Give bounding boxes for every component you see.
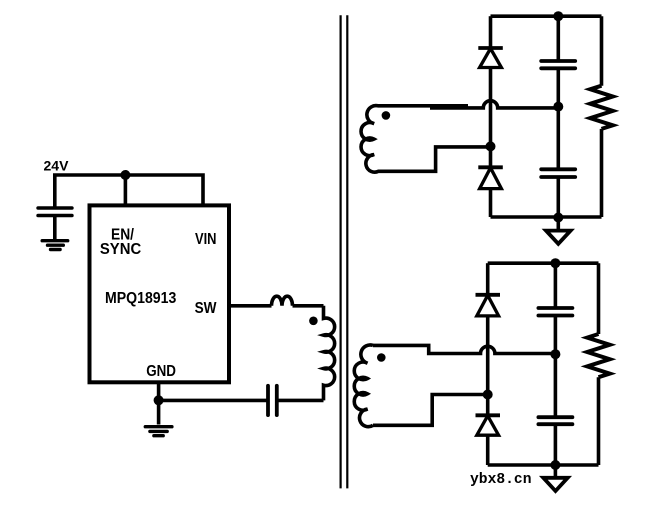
junction dot supply node bbox=[120, 170, 130, 180]
wire bottom rail lower bbox=[488, 463, 599, 467]
transformer T1 primary winding bbox=[324, 306, 335, 401]
capacitor C5 bbox=[538, 308, 572, 316]
wire node to D2 cathode bbox=[489, 146, 493, 167]
wire output cap column lower bbox=[554, 263, 558, 308]
diode D4 bbox=[476, 415, 501, 435]
wire C3 to mid node bbox=[556, 68, 560, 169]
junction dot output mid lower bbox=[550, 349, 560, 359]
junction dot bottom rail upper bbox=[553, 213, 563, 223]
wire D1 anode to node bbox=[489, 68, 493, 147]
transformer T1 secondary winding lower bbox=[354, 345, 373, 427]
diode D3 bbox=[476, 295, 501, 316]
capacitor C6 bbox=[538, 417, 572, 424]
diode D1 bbox=[478, 48, 503, 68]
capacitor C3 bbox=[541, 61, 575, 68]
junction dot GND node bbox=[154, 395, 164, 405]
polarity dot secondary lower bbox=[377, 353, 386, 362]
svg-text:MPQ18913: MPQ18913 bbox=[105, 290, 177, 307]
wire output cap column upper bbox=[556, 16, 560, 61]
polarity dot primary bbox=[309, 317, 318, 326]
wire C6 to bottom rail bbox=[554, 424, 558, 465]
wire node to D4 cathode bbox=[486, 395, 490, 416]
svg-text:24V: 24V bbox=[44, 157, 70, 173]
svg-text:VIN: VIN bbox=[195, 231, 217, 248]
svg-text:SW: SW bbox=[195, 300, 217, 317]
svg-text:ybx8.cn: ybx8.cn bbox=[470, 471, 532, 488]
wire D3 cathode to top rail bbox=[486, 263, 490, 295]
capacitor C1 input bbox=[38, 208, 72, 239]
svg-text:SYNC: SYNC bbox=[100, 241, 141, 258]
junction dot anode node upper bbox=[486, 141, 496, 151]
resistor R1 bbox=[590, 16, 613, 217]
op-amp U1 MPQ18913 box bbox=[90, 205, 230, 382]
wire secondary upper bottom to anode node bbox=[383, 147, 491, 171]
capacitor C4 bbox=[541, 169, 575, 177]
capacitor C2 series bbox=[268, 386, 277, 415]
wire D4 anode to bottom rail bbox=[486, 435, 490, 465]
resistor R2 bbox=[587, 263, 610, 465]
wire secondary lower top to output node (crossover hop) bbox=[373, 345, 555, 353]
wire 24V supply rail to VIN bbox=[55, 175, 203, 209]
wire C4 to bottom rail bbox=[556, 177, 560, 217]
wire EN/SYNC stub bbox=[124, 175, 128, 205]
junction dot top rail upper bbox=[553, 11, 563, 21]
ground output upper bbox=[546, 218, 571, 244]
wire C5 to mid node bbox=[554, 316, 558, 418]
wire D1 cathode to top rail bbox=[489, 16, 493, 48]
svg-text:GND: GND bbox=[146, 363, 176, 380]
junction dot bottom rail lower bbox=[550, 460, 560, 470]
junction dot output mid upper bbox=[553, 102, 563, 112]
transformer core bbox=[341, 15, 348, 488]
wire secondary upper top to output node (crossover hop) bbox=[382, 101, 558, 108]
ground GND bbox=[145, 427, 172, 436]
ground input bbox=[42, 241, 67, 250]
wire primary bottom to capacitor C2 bbox=[277, 399, 324, 403]
wire top rail lower bbox=[488, 261, 599, 265]
wire D3 anode to node bbox=[486, 316, 490, 395]
wire capacitor C2 to GND node bbox=[159, 399, 268, 403]
junction dot top rail lower bbox=[550, 258, 560, 268]
ground output lower bbox=[543, 465, 567, 491]
inductor L1 bbox=[272, 296, 293, 306]
wire GND pin to ground bbox=[157, 384, 161, 425]
transformer T1 secondary winding upper bbox=[361, 106, 382, 173]
wire secondary lower bottom to anode node bbox=[373, 395, 488, 426]
polarity dot secondary upper bbox=[382, 111, 391, 120]
wire top rail upper bbox=[491, 14, 602, 18]
diode D2 bbox=[478, 167, 503, 188]
wire bottom rail upper bbox=[491, 215, 602, 219]
junction dot anode node lower bbox=[483, 390, 493, 400]
wire D2 anode to bottom rail bbox=[489, 189, 493, 217]
wire SW to inductor bbox=[229, 304, 272, 308]
wire inductor to primary bbox=[293, 304, 324, 308]
